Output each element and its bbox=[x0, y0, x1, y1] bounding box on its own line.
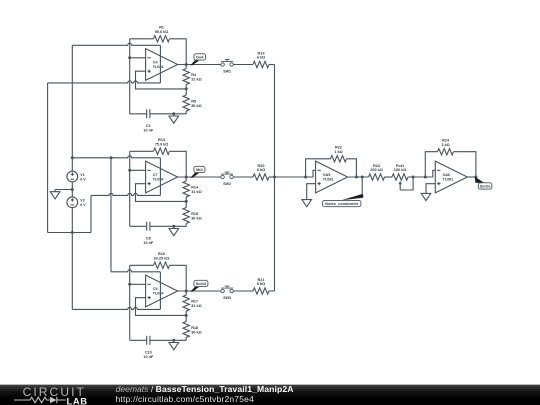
svg-text:10 nF: 10 nF bbox=[143, 241, 154, 245]
svg-text:TL084: TL084 bbox=[153, 178, 165, 182]
resistor R16 bbox=[154, 252, 170, 268]
resistor R21 bbox=[253, 278, 269, 294]
svg-text:R16: R16 bbox=[158, 252, 165, 256]
svg-text:10 nF: 10 nF bbox=[143, 129, 154, 133]
resistor R24 bbox=[438, 139, 454, 155]
node flag Notes_combinees bbox=[323, 194, 364, 207]
ground OA5 bbox=[302, 199, 312, 207]
svg-text:C9: C9 bbox=[153, 287, 158, 291]
svg-text:31 kΩ: 31 kΩ bbox=[191, 190, 201, 194]
-6V bottom wire bbox=[48, 232, 91, 234]
summing bus wire bbox=[273, 65, 276, 292]
wire OA6 output bbox=[467, 176, 477, 179]
V- rail stage 2 bbox=[91, 193, 160, 195]
svg-text:C8: C8 bbox=[146, 237, 151, 241]
op-amp OA5 (TL081) bbox=[316, 161, 348, 193]
voltage source V1 bbox=[67, 171, 86, 182]
wire feedback net stage 3 bbox=[130, 265, 187, 291]
svg-text:LAB: LAB bbox=[67, 395, 88, 405]
wire inverting input / C vertical stage 3 bbox=[128, 265, 145, 340]
svg-text:Notes_combinees: Notes_combinees bbox=[325, 201, 358, 206]
wire +6V column to stage 3 bbox=[110, 158, 112, 272]
resistor R23 bbox=[369, 164, 385, 180]
svg-text:R20: R20 bbox=[258, 164, 265, 168]
voltage source V2 bbox=[67, 197, 86, 208]
svg-text:Do4: Do4 bbox=[196, 55, 204, 60]
svg-text:6 kΩ: 6 kΩ bbox=[257, 168, 265, 172]
svg-text:60.25 kΩ: 60.25 kΩ bbox=[154, 257, 170, 261]
node flag Mi4 bbox=[190, 166, 205, 177]
ground stage 2 bbox=[169, 225, 179, 236]
svg-text:R1: R1 bbox=[159, 26, 164, 30]
wire Pot1 wiper bbox=[400, 176, 414, 191]
wire -6V to stage1 V- rail bbox=[47, 83, 49, 233]
capacitor C10 bbox=[130, 336, 187, 359]
svg-text:R17: R17 bbox=[191, 300, 198, 304]
svg-text:TL081: TL081 bbox=[443, 178, 454, 182]
op-amp OA6 (TL081) bbox=[435, 161, 467, 193]
potentiometer Pot1 bbox=[392, 164, 408, 190]
wire non-inverting input net stage 2 bbox=[136, 184, 188, 203]
svg-text:10 nF: 10 nF bbox=[143, 355, 154, 359]
svg-text:30 kΩ: 30 kΩ bbox=[191, 217, 201, 221]
switch SW2 bbox=[221, 172, 233, 186]
svg-text:30 kΩ: 30 kΩ bbox=[191, 104, 201, 108]
op-amp C9 (TL084) stage 3 bbox=[146, 275, 178, 307]
svg-text:1 kΩ: 1 kΩ bbox=[441, 143, 449, 147]
wire -6V to stage2 V- rail bbox=[90, 195, 92, 232]
wire +6V column to stage1 rail bbox=[71, 45, 73, 158]
resistor R20 bbox=[253, 164, 269, 180]
wire output stage 2 bbox=[178, 176, 221, 179]
resistor R13 bbox=[154, 138, 170, 154]
wire OA5 feedback right bbox=[347, 159, 358, 179]
resistor R17 bbox=[183, 291, 202, 315]
svg-text:1 kΩ: 1 kΩ bbox=[334, 150, 342, 154]
svg-text:R23: R23 bbox=[373, 164, 380, 168]
svg-text:C1: C1 bbox=[146, 124, 151, 128]
wire feedback net stage 2 bbox=[130, 151, 187, 177]
svg-text:Pot1: Pot1 bbox=[396, 164, 404, 168]
wire inverting input / C vertical stage 1 bbox=[128, 39, 145, 114]
wire bus to OA5 inverting input bbox=[275, 170, 316, 177]
svg-text:C7: C7 bbox=[153, 173, 158, 177]
wire V1-V2 midpoint bbox=[71, 182, 74, 197]
svg-text:R14: R14 bbox=[191, 186, 199, 190]
wire switch to resistor stage 1 bbox=[233, 64, 253, 66]
svg-text:6 V: 6 V bbox=[80, 203, 86, 207]
resistor R4 bbox=[183, 65, 202, 89]
ground stage 3 bbox=[169, 339, 179, 350]
svg-text:C10: C10 bbox=[145, 351, 152, 355]
wire non-inverting input net stage 1 bbox=[136, 71, 188, 90]
wire V2 bottom to -6V row bbox=[71, 208, 74, 234]
svg-text:SW3: SW3 bbox=[223, 296, 231, 300]
wire switch to resistor stage 2 bbox=[233, 176, 253, 178]
power stubs stage 2 bbox=[159, 158, 161, 196]
wire inverting input / C vertical stage 2 bbox=[128, 151, 145, 226]
svg-text:TL084: TL084 bbox=[153, 292, 165, 296]
ground stage 1 bbox=[169, 112, 179, 123]
resistor R15 bbox=[183, 201, 202, 226]
footer credit text bbox=[116, 385, 294, 404]
node flag Do4 bbox=[190, 54, 205, 65]
svg-text:R13: R13 bbox=[158, 138, 165, 142]
ground OA6 bbox=[421, 193, 431, 201]
resistor R22 bbox=[331, 146, 347, 162]
svg-text:TL081: TL081 bbox=[323, 178, 334, 182]
V- rail stage 3 bbox=[72, 307, 160, 309]
svg-text:75.9 kΩ: 75.9 kΩ bbox=[155, 143, 169, 147]
V+ rail stage 1 bbox=[72, 43, 160, 45]
wire OA5 output bbox=[348, 176, 369, 178]
wire switch to resistor stage 3 bbox=[233, 290, 253, 292]
V- rail stage 1 bbox=[48, 81, 161, 83]
power stubs stage 1 bbox=[159, 45, 161, 83]
svg-text:6 kΩ: 6 kΩ bbox=[257, 282, 265, 286]
svg-text:R24: R24 bbox=[442, 139, 450, 143]
svg-text:SW1: SW1 bbox=[223, 70, 231, 74]
wire resistor to bus stage 3 bbox=[269, 290, 275, 292]
svg-text:R18: R18 bbox=[191, 326, 198, 330]
V+ rail stage 3 bbox=[111, 270, 160, 272]
resistor R5 bbox=[183, 89, 202, 114]
svg-text:31 kΩ: 31 kΩ bbox=[191, 78, 201, 82]
svg-text:95.6 kΩ: 95.6 kΩ bbox=[155, 30, 169, 34]
svg-text:30 kΩ: 30 kΩ bbox=[191, 331, 201, 335]
wire resistor to bus stage 1 bbox=[269, 64, 275, 66]
wire feedback net stage 1 bbox=[130, 39, 187, 65]
wire V1 top to +rail bbox=[71, 156, 74, 171]
svg-text:100 kΩ: 100 kΩ bbox=[394, 168, 407, 172]
switch SW3 bbox=[221, 286, 233, 300]
svg-text:SW2: SW2 bbox=[223, 182, 231, 186]
wire flag Notes_combinees stem bbox=[361, 176, 364, 196]
CircuitLab logo bbox=[13, 385, 113, 405]
svg-text:OA6: OA6 bbox=[443, 173, 451, 177]
node flag Sortie bbox=[475, 177, 492, 190]
svg-text:V2: V2 bbox=[80, 199, 84, 203]
wire Pot1 to OA6 bbox=[408, 170, 435, 177]
V+ rail stage 2 bbox=[72, 156, 160, 160]
op-amp C4 (TL084) stage 1 bbox=[146, 49, 178, 81]
svg-text:R22: R22 bbox=[335, 146, 342, 150]
resistor R1 bbox=[154, 26, 170, 42]
wire OA6 feedback right bbox=[454, 152, 476, 177]
svg-text:Sol#4: Sol#4 bbox=[196, 281, 207, 286]
svg-text:OA5: OA5 bbox=[323, 173, 331, 177]
wire output stage 1 bbox=[178, 63, 221, 66]
svg-text:31 kΩ: 31 kΩ bbox=[191, 304, 201, 308]
ground V1/V2 midpoint bbox=[50, 190, 72, 199]
wire -6V to stage3 V- rail bbox=[71, 233, 73, 310]
op-amp C7 (TL084) stage 2 bbox=[146, 161, 178, 193]
svg-text:TL084: TL084 bbox=[153, 65, 165, 69]
wire OA6 feedback left bbox=[424, 152, 438, 179]
svg-text:R5: R5 bbox=[191, 100, 196, 104]
svg-text:Sortie: Sortie bbox=[480, 184, 492, 189]
svg-text:V1: V1 bbox=[80, 173, 84, 177]
svg-text:6 kΩ: 6 kΩ bbox=[257, 56, 265, 60]
resistor R18 bbox=[183, 315, 202, 340]
wire resistor to bus stage 2 bbox=[269, 176, 275, 178]
resistor R14 bbox=[183, 177, 202, 201]
wire output stage 3 bbox=[178, 290, 221, 293]
svg-text:Mi4: Mi4 bbox=[196, 167, 203, 172]
resistor R19 bbox=[253, 51, 269, 67]
svg-text:R15: R15 bbox=[191, 212, 198, 216]
svg-text:200 kΩ: 200 kΩ bbox=[370, 168, 383, 172]
node flag Sol#4 bbox=[190, 280, 208, 291]
svg-text:R21: R21 bbox=[258, 278, 265, 282]
wire R23 to Pot1 bbox=[385, 176, 393, 178]
capacitor C1 bbox=[130, 109, 187, 132]
wire OA5 feedback left bbox=[304, 159, 330, 179]
wire OA6 non-inverting to ground bbox=[426, 184, 435, 193]
switch SW1 bbox=[221, 60, 233, 74]
capacitor C8 bbox=[130, 222, 187, 245]
svg-text:R19: R19 bbox=[258, 51, 265, 55]
wire non-inverting input net stage 3 bbox=[136, 298, 188, 317]
power stubs stage 3 bbox=[159, 272, 161, 310]
svg-text:6 V: 6 V bbox=[80, 178, 86, 182]
wire OA5 non-inverting to ground bbox=[307, 184, 316, 200]
